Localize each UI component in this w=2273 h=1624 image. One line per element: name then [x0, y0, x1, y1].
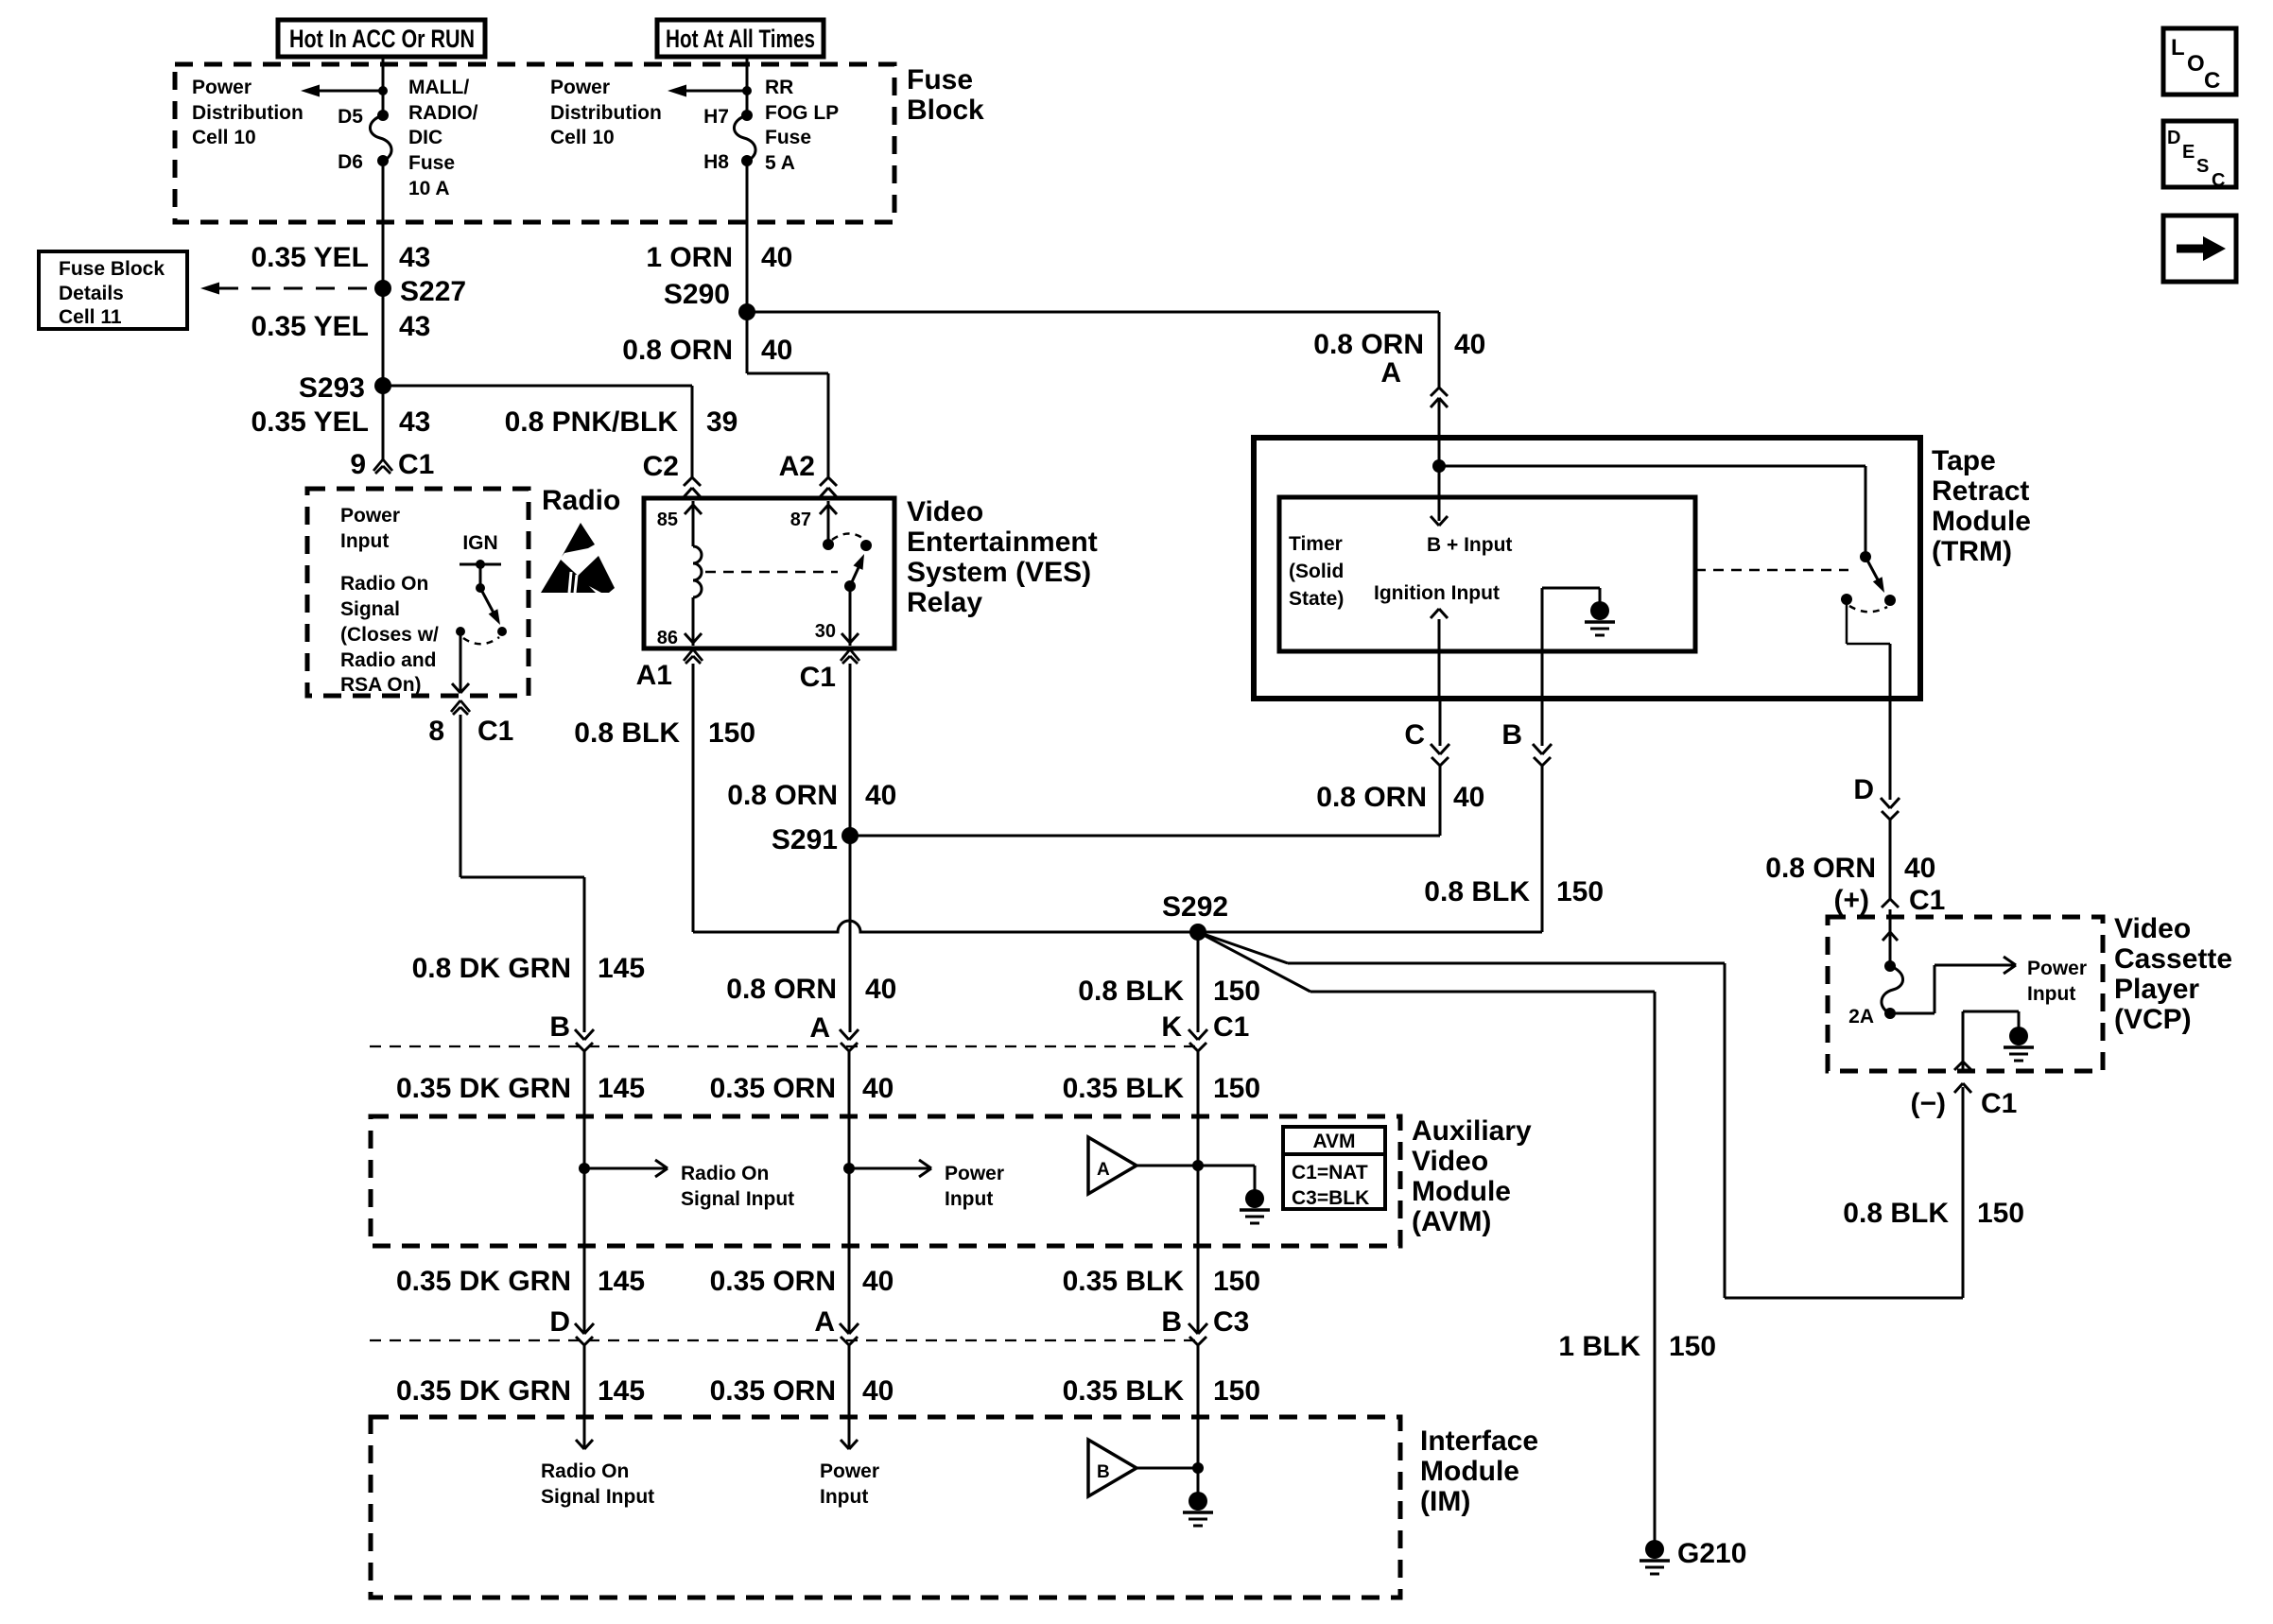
- IM name label: [1420, 1425, 1538, 1517]
- connector C1 below relay: [800, 649, 859, 693]
- svg-text:40: 40: [1453, 782, 1484, 813]
- AVM internal ground: [1198, 1166, 1270, 1223]
- svg-text:1 ORN: 1 ORN: [646, 242, 733, 273]
- svg-text:Video: Video: [2114, 913, 2191, 944]
- svg-text:86: 86: [657, 628, 678, 648]
- svg-text:150: 150: [1977, 1198, 2024, 1229]
- IM power input: [820, 1417, 879, 1508]
- svg-text:Retract: Retract: [1932, 475, 2029, 507]
- wire 0.35 ORN 40 to AVM: [710, 1051, 894, 1116]
- svg-text:0.35 YEL: 0.35 YEL: [251, 242, 369, 273]
- TRM switch: [1841, 551, 1896, 612]
- svg-text:40: 40: [862, 1266, 894, 1297]
- svg-text:D6: D6: [338, 151, 363, 173]
- svg-text:C: C: [2212, 170, 2225, 191]
- svg-text:FOG LP: FOG LP: [765, 102, 839, 124]
- svg-text:Fuse: Fuse: [907, 64, 973, 95]
- IM internal ground: [1183, 1468, 1213, 1526]
- svg-text:40: 40: [862, 1375, 894, 1407]
- VCP name label: [2114, 913, 2232, 1035]
- svg-text:C: C: [1404, 719, 1425, 751]
- dashed arrow S227 to fuse block details: [200, 283, 373, 295]
- wire 0.35 DK GRN 145 AVM to IM connector D: [396, 1246, 645, 1338]
- TRM internal ground: [1542, 588, 1615, 699]
- svg-text:40: 40: [865, 780, 896, 811]
- connector B (row 1, DK GRN): [575, 1029, 594, 1051]
- svg-text:B: B: [1161, 1306, 1182, 1338]
- svg-text:AVM: AVM: [1312, 1131, 1355, 1152]
- connector C1 (-) at VCP bottom: [1911, 1062, 2018, 1119]
- svg-text:Relay: Relay: [907, 587, 982, 618]
- connector C2 at VES relay: [643, 451, 701, 497]
- video cassette player dashed box: [1828, 917, 2103, 1071]
- arrow to power distribution (left): [301, 85, 388, 97]
- splice S292: [1162, 891, 1228, 941]
- connector A (row 1, ORN): [840, 1029, 859, 1051]
- svg-text:40: 40: [761, 242, 792, 273]
- svg-text:(IM): (IM): [1420, 1486, 1470, 1517]
- svg-text:B: B: [1097, 1462, 1110, 1482]
- AVM power input arrow: [843, 1116, 1004, 1246]
- svg-text:(Solid: (Solid: [1289, 561, 1344, 582]
- LOC reference box: [2163, 28, 2236, 95]
- svg-text:(AVM): (AVM): [1412, 1206, 1491, 1237]
- connector B below TRM: [1501, 699, 1552, 766]
- svg-text:0.35 BLK: 0.35 BLK: [1063, 1266, 1185, 1297]
- radio internal labels: [340, 505, 439, 696]
- svg-text:Block: Block: [907, 95, 984, 126]
- radio dashed box: [307, 489, 529, 696]
- relay switch pin 30: [815, 586, 859, 646]
- VCP fuse 2A: [1848, 960, 1902, 1028]
- svg-text:(+): (+): [1834, 885, 1870, 916]
- fuse block dashed box: [175, 64, 894, 222]
- svg-text:D: D: [2167, 128, 2180, 148]
- AVM name label: [1412, 1115, 1532, 1237]
- wire 0.8 BLK 150 relay A1 to S292 run: [574, 664, 1542, 932]
- svg-text:RSA On): RSA On): [340, 674, 422, 696]
- svg-text:0.8 ORN: 0.8 ORN: [727, 780, 838, 811]
- svg-text:145: 145: [598, 1073, 645, 1104]
- svg-text:B: B: [549, 1011, 570, 1043]
- wire 0.8 ORN 40 S291 down to AVM connector A: [726, 836, 896, 1044]
- svg-text:Hot At All Times: Hot At All Times: [666, 25, 815, 53]
- svg-text:Tape: Tape: [1932, 445, 1996, 476]
- svg-text:(VCP): (VCP): [2114, 1004, 2192, 1035]
- AVM radio-on signal input arrow: [579, 1116, 794, 1246]
- svg-text:Distribution: Distribution: [550, 102, 662, 124]
- splice S291: [772, 824, 859, 855]
- ground G210: [1640, 1538, 1746, 1574]
- svg-text:8: 8: [428, 716, 444, 747]
- svg-text:10 A: 10 A: [408, 178, 450, 199]
- svg-text:B + Input: B + Input: [1427, 534, 1512, 556]
- TRM name label: [1932, 445, 2031, 567]
- svg-text:2A: 2A: [1848, 1006, 1874, 1028]
- radio-on signal output wire: [452, 631, 469, 693]
- svg-text:Module: Module: [1412, 1176, 1511, 1207]
- svg-text:DIC: DIC: [408, 127, 442, 148]
- svg-text:40: 40: [865, 974, 896, 1005]
- svg-text:0.8 DK GRN: 0.8 DK GRN: [412, 953, 571, 984]
- svg-text:O: O: [2187, 51, 2205, 77]
- svg-text:0.8 BLK: 0.8 BLK: [574, 717, 680, 749]
- svg-text:Ignition Input: Ignition Input: [1374, 582, 1500, 604]
- svg-text:Module: Module: [1420, 1456, 1519, 1487]
- svg-text:1 BLK: 1 BLK: [1558, 1331, 1640, 1362]
- VES relay name label: [907, 496, 1098, 618]
- connector A (row 2): [840, 1323, 859, 1345]
- wire from Hot At All Times to fuse H7: [746, 57, 749, 115]
- wire 0.35 DK GRN 145 to AVM: [396, 1051, 645, 1116]
- VCP internal ground: [1963, 1011, 2034, 1071]
- svg-text:L: L: [2171, 35, 2185, 60]
- IM gate B: [1088, 1417, 1204, 1496]
- connector B C3 (row 2): [1189, 1323, 1207, 1345]
- in-line connector dashed line (row 1): [370, 1045, 1198, 1047]
- svg-text:Input: Input: [820, 1486, 868, 1508]
- svg-text:0.8 ORN: 0.8 ORN: [1316, 782, 1427, 813]
- svg-text:0.8 ORN: 0.8 ORN: [1765, 853, 1876, 884]
- svg-text:C2: C2: [643, 451, 679, 482]
- svg-text:Power: Power: [2027, 958, 2087, 979]
- label box Hot In ACC Or RUN: [278, 20, 485, 57]
- tape retract module TRM box: [1254, 438, 1920, 699]
- svg-text:0.35 ORN: 0.35 ORN: [710, 1375, 836, 1407]
- svg-text:Interface: Interface: [1420, 1425, 1538, 1457]
- relay coil pin 85: [657, 501, 702, 597]
- svg-text:Fuse: Fuse: [408, 152, 455, 174]
- svg-text:State): State): [1289, 588, 1344, 610]
- connector A at TRM: [1380, 357, 1448, 438]
- svg-text:D5: D5: [338, 106, 363, 128]
- svg-text:(−): (−): [1911, 1088, 1947, 1119]
- wire 0.35 BLK 150 to IM: [1063, 1345, 1260, 1417]
- svg-text:Player: Player: [2114, 974, 2199, 1005]
- svg-text:40: 40: [1454, 329, 1485, 360]
- svg-text:Power: Power: [820, 1460, 879, 1482]
- svg-text:43: 43: [399, 406, 430, 438]
- wire 0.35 YEL 43 fuse D6 to S227: [251, 161, 430, 288]
- TRM ignition input net: [1374, 582, 1500, 699]
- wire 1 BLK 150 S292 to G210: [1198, 932, 1716, 1541]
- svg-text:A: A: [1380, 357, 1401, 389]
- wire 0.8 ORN 40 TRM D to VCP: [1765, 818, 1935, 899]
- in-line connector dashed line (row 2): [370, 1339, 1198, 1341]
- svg-text:5 A: 5 A: [765, 152, 795, 174]
- power distribution cell 10 (left): [192, 77, 304, 148]
- wire 0.35 DK GRN 145 to IM: [396, 1345, 645, 1417]
- TRM switch output to D: [1847, 599, 1890, 699]
- splice S227: [374, 276, 466, 307]
- radio IGN terminal and switch: [456, 532, 507, 644]
- svg-text:40: 40: [1904, 853, 1935, 884]
- svg-text:30: 30: [815, 621, 836, 642]
- svg-text:145: 145: [598, 953, 645, 984]
- svg-text:Input: Input: [945, 1188, 993, 1210]
- svg-text:S293: S293: [299, 372, 365, 404]
- svg-text:Input: Input: [2027, 983, 2075, 1005]
- svg-text:87: 87: [790, 510, 811, 530]
- wire 0.35 YEL 43 S293 to radio pin 9: [251, 386, 430, 460]
- svg-text:0.8 ORN: 0.8 ORN: [726, 974, 837, 1005]
- svg-text:Power: Power: [550, 77, 610, 98]
- svg-text:Signal Input: Signal Input: [541, 1486, 654, 1508]
- svg-text:IGN: IGN: [462, 532, 497, 554]
- svg-text:150: 150: [1213, 1266, 1260, 1297]
- svg-text:C1: C1: [1981, 1088, 2017, 1119]
- svg-text:Distribution: Distribution: [192, 102, 304, 124]
- wire 0.35 BLK 150 to AVM: [1063, 1051, 1260, 1116]
- svg-text:150: 150: [708, 717, 755, 749]
- svg-text:150: 150: [1556, 876, 1604, 907]
- svg-text:Signal Input: Signal Input: [681, 1188, 794, 1210]
- svg-text:40: 40: [761, 335, 792, 366]
- splice S293: [299, 372, 391, 404]
- svg-text:C3=BLK: C3=BLK: [1292, 1187, 1369, 1209]
- svg-text:0.8 BLK: 0.8 BLK: [1843, 1198, 1949, 1229]
- svg-text:150: 150: [1669, 1331, 1716, 1362]
- svg-text:A: A: [814, 1306, 835, 1338]
- svg-text:B: B: [1501, 719, 1522, 751]
- svg-text:A: A: [809, 1012, 830, 1044]
- wire 0.8 BLK 150 VCP (-) down: [1843, 1087, 2024, 1298]
- timer label: [1289, 533, 1344, 610]
- svg-text:Module: Module: [1932, 506, 2031, 537]
- wire 0.35 ORN 40 AVM to IM connector A: [710, 1246, 894, 1338]
- svg-text:Timer: Timer: [1289, 533, 1343, 555]
- TRM B+ input net: [1427, 438, 1865, 556]
- wire 0.8 ORN 40 S290 to relay A2: [622, 312, 828, 477]
- svg-text:Cell 10: Cell 10: [192, 127, 256, 148]
- svg-text:0.35 BLK: 0.35 BLK: [1063, 1073, 1185, 1104]
- IM radio-on signal input: [541, 1417, 654, 1508]
- wire 0.8 PNK/BLK 39 S293 to relay C2: [383, 386, 737, 477]
- connector A2 at VES relay: [779, 451, 837, 497]
- svg-text:C1: C1: [477, 716, 513, 747]
- svg-text:150: 150: [1213, 976, 1260, 1007]
- interface module dashed box: [371, 1417, 1400, 1598]
- wire 0.35 BLK 150 AVM to IM connector B C3: [1063, 1246, 1260, 1338]
- svg-text:A: A: [1097, 1160, 1110, 1180]
- relay coil pin 86: [657, 597, 702, 648]
- svg-text:Radio On: Radio On: [541, 1460, 629, 1482]
- wire 0.35 ORN 40 to IM: [710, 1345, 894, 1417]
- wire 1 ORN 40 fuse H8 to S290: [646, 161, 792, 312]
- splice S290: [664, 279, 755, 320]
- TRM internal dashed link: [1695, 569, 1848, 572]
- svg-text:H7: H7: [703, 106, 729, 128]
- wire 0.8 ORN 40 TRM C to S291: [850, 764, 1484, 836]
- arrow to power distribution (right): [668, 85, 752, 97]
- relay switch pin 87: [790, 501, 872, 551]
- svg-text:Radio: Radio: [542, 485, 620, 516]
- svg-text:Cell 10: Cell 10: [550, 127, 615, 148]
- svg-text:0.35 YEL: 0.35 YEL: [251, 311, 369, 342]
- svg-text:S227: S227: [400, 276, 466, 307]
- svg-text:(Closes w/: (Closes w/: [340, 624, 439, 646]
- relay internal dashed link: [705, 571, 838, 574]
- connector C below TRM: [1404, 699, 1449, 766]
- connector C1 (+) at VCP: [1834, 885, 1946, 966]
- svg-text:150: 150: [1213, 1375, 1260, 1407]
- svg-text:145: 145: [598, 1266, 645, 1297]
- svg-text:A1: A1: [636, 660, 672, 691]
- svg-text:0.8 ORN: 0.8 ORN: [1313, 329, 1424, 360]
- label box Hot At All Times: [657, 20, 824, 57]
- svg-text:Radio and: Radio and: [340, 649, 437, 671]
- svg-text:C1=NAT: C1=NAT: [1292, 1162, 1368, 1183]
- svg-text:0.8 ORN: 0.8 ORN: [622, 335, 733, 366]
- svg-text:Power: Power: [945, 1163, 1004, 1184]
- fuse RR FOG LP 5A (H7-H8): [703, 77, 839, 174]
- svg-text:C1: C1: [800, 662, 836, 693]
- svg-text:150: 150: [1213, 1073, 1260, 1104]
- relay switch arm: [844, 554, 864, 592]
- svg-text:0.35 DK GRN: 0.35 DK GRN: [396, 1375, 571, 1407]
- svg-text:H8: H8: [703, 151, 729, 173]
- svg-text:C1: C1: [398, 449, 434, 480]
- svg-text:Cassette: Cassette: [2114, 943, 2232, 975]
- power distribution cell 10 (right): [550, 77, 662, 148]
- svg-text:S291: S291: [772, 824, 838, 855]
- svg-text:85: 85: [657, 510, 678, 530]
- svg-text:S: S: [2196, 156, 2209, 177]
- svg-text:D: D: [549, 1306, 570, 1338]
- wire 0.8 ORN 40 relay C1 to S291: [727, 664, 896, 836]
- connector D (row 2): [575, 1323, 594, 1345]
- wire 0.8 DK GRN 145 radio pin 8 to AVM connector B: [412, 715, 645, 1043]
- svg-text:9: 9: [350, 449, 366, 480]
- svg-text:Hot In ACC Or RUN: Hot In ACC Or RUN: [289, 25, 475, 53]
- svg-text:0.35 ORN: 0.35 ORN: [710, 1073, 836, 1104]
- timer solid state box: [1279, 497, 1695, 651]
- svg-text:Video: Video: [1412, 1146, 1488, 1177]
- svg-text:Radio On: Radio On: [340, 573, 428, 595]
- svg-text:0.8 PNK/BLK: 0.8 PNK/BLK: [505, 406, 679, 438]
- fuse MALL/RADIO/DIC 10A (D5-D6): [338, 77, 478, 199]
- forward arrow reference box: [2163, 216, 2236, 282]
- svg-text:D: D: [1853, 774, 1874, 805]
- svg-text:40: 40: [862, 1073, 894, 1104]
- auxiliary video module dashed box: [371, 1116, 1400, 1246]
- svg-text:Radio On: Radio On: [681, 1163, 769, 1184]
- svg-text:System (VES): System (VES): [907, 557, 1091, 588]
- svg-text:S292: S292: [1162, 891, 1228, 923]
- svg-text:Entertainment: Entertainment: [907, 527, 1098, 558]
- svg-text:RR: RR: [765, 77, 793, 98]
- wire 0.8 ORN 40 S290 to TRM connector A: [747, 312, 1485, 388]
- wire 0.8 BLK 150 TRM B down to S292 line: [1424, 764, 1604, 932]
- svg-text:145: 145: [598, 1375, 645, 1407]
- svg-text:43: 43: [399, 311, 430, 342]
- svg-text:K: K: [1161, 1011, 1182, 1043]
- connector C1 pin 9 at radio: [350, 449, 434, 480]
- svg-text:A2: A2: [779, 451, 815, 482]
- svg-text:C1: C1: [1909, 885, 1945, 916]
- AVM ID box: [1283, 1127, 1385, 1209]
- fuse block name label: [907, 64, 984, 126]
- svg-text:0.35 BLK: 0.35 BLK: [1063, 1375, 1185, 1407]
- svg-text:0.35 ORN: 0.35 ORN: [710, 1266, 836, 1297]
- svg-text:Details: Details: [59, 283, 124, 304]
- svg-text:39: 39: [706, 406, 737, 438]
- svg-text:C: C: [2204, 68, 2220, 94]
- svg-text:0.8 BLK: 0.8 BLK: [1078, 976, 1184, 1007]
- radio name label: [542, 485, 620, 516]
- svg-text:S290: S290: [664, 279, 730, 310]
- wire from Hot In ACC to fuse D5: [382, 57, 385, 115]
- svg-text:RADIO/: RADIO/: [408, 102, 478, 124]
- connector K C1 (row 1, BLK): [1189, 1029, 1207, 1051]
- svg-text:(TRM): (TRM): [1932, 536, 2012, 567]
- svg-text:0.8 BLK: 0.8 BLK: [1424, 876, 1530, 907]
- svg-text:MALL/: MALL/: [408, 77, 469, 98]
- svg-text:Fuse Block: Fuse Block: [59, 258, 165, 280]
- svg-text:C1: C1: [1213, 1011, 1249, 1043]
- svg-text:0.35 YEL: 0.35 YEL: [251, 406, 369, 438]
- svg-text:Video: Video: [907, 496, 983, 527]
- VCP power input arrow: [1890, 957, 2087, 1013]
- AVM gate A: [1088, 1116, 1204, 1246]
- svg-text:Auxiliary: Auxiliary: [1412, 1115, 1532, 1147]
- wire 0.8 BLK 150 S292 down to AVM connector K: [1078, 932, 1260, 1043]
- svg-text:G210: G210: [1677, 1538, 1746, 1569]
- svg-text:Fuse: Fuse: [765, 127, 811, 148]
- svg-text:Input: Input: [340, 530, 389, 552]
- VES relay box: [644, 498, 894, 648]
- ESD sensitivity symbol: [541, 523, 615, 593]
- connector C1 pin 8 at radio output: [428, 700, 513, 747]
- wire 0.8 BLK 150 S292 to VCP (-): [1198, 932, 1963, 1298]
- svg-text:43: 43: [399, 242, 430, 273]
- fuse block details callout box: [39, 251, 187, 329]
- svg-text:Power: Power: [192, 77, 252, 98]
- connector A1 below relay: [636, 649, 703, 691]
- svg-text:0.35 DK GRN: 0.35 DK GRN: [396, 1073, 571, 1104]
- DESC reference box: [2163, 121, 2236, 191]
- wire 0.35 YEL 43 S227 to S293: [251, 288, 430, 386]
- svg-text:Power: Power: [340, 505, 400, 527]
- svg-text:E: E: [2182, 142, 2195, 163]
- svg-text:Cell 11: Cell 11: [59, 306, 122, 328]
- svg-text:Signal: Signal: [340, 598, 400, 620]
- svg-text:C3: C3: [1213, 1306, 1249, 1338]
- svg-text:0.35 DK GRN: 0.35 DK GRN: [396, 1266, 571, 1297]
- connector D below TRM: [1853, 699, 1900, 820]
